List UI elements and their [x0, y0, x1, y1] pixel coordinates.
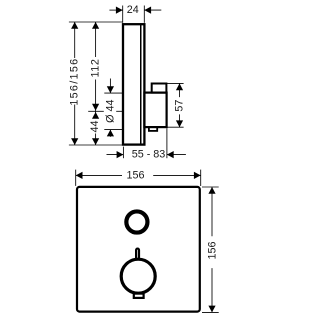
dimension 55-83 tails [107, 154, 124, 156]
dimension 112 line [95, 22, 97, 57]
arrows Ø44 (outside, pointing inward) [107, 86, 114, 93]
front width dim 156 line [76, 174, 122, 176]
handle centerline [88, 110, 104, 112]
svg-text:44: 44 [89, 120, 101, 132]
dimension 24: extension lines [122, 6, 124, 23]
handle bottom tab [134, 294, 144, 298]
arrows 57 [176, 83, 183, 90]
wall plate (side profile) [123, 24, 144, 144]
knob top step [152, 84, 167, 93]
front width dim 156: extension lines [75, 170, 77, 186]
svg-text:24: 24 [127, 4, 139, 16]
arrows 112 [92, 22, 99, 29]
select button ring [126, 211, 147, 232]
svg-text:156: 156 [126, 169, 144, 181]
svg-text:55 - 83: 55 - 83 [132, 149, 166, 161]
arrows 55-83 (outside, pointing inward) [117, 151, 124, 158]
arrows 44 [92, 112, 99, 119]
front height dim 156: extension lines [202, 186, 219, 188]
dimension Ø44 ticks [104, 92, 122, 94]
plate inner front line [140, 23, 142, 145]
dimension 57 line [179, 83, 181, 97]
svg-text:156: 156 [206, 241, 218, 259]
knob main body [144, 93, 166, 128]
knob bottom tab [149, 127, 157, 131]
arrows front height 156 [208, 187, 215, 194]
arrows 24 (outside, pointing inward) [116, 7, 123, 14]
arrows 156/156 [71, 22, 78, 29]
left extension lines (156/156) [69, 21, 123, 23]
arrows front width 156 [76, 172, 83, 179]
dimension 156/156 line [74, 22, 76, 58]
dimension 44 line [95, 111, 97, 118]
svg-text:112: 112 [90, 58, 102, 77]
svg-text:Ø 44: Ø 44 [105, 99, 117, 122]
dimension Ø44 arrow tails [109, 79, 111, 94]
front plate [77, 187, 200, 312]
dimension 24: tails [109, 9, 122, 11]
thermostat handle circle [121, 259, 155, 293]
front height dim 156 line [211, 187, 213, 236]
dimension 55-83 extension lines [122, 147, 124, 159]
dimension 57 extension lines [167, 82, 184, 84]
svg-text:156/156: 156/156 [69, 58, 81, 106]
svg-text:57: 57 [174, 100, 186, 112]
handle top tab [136, 249, 139, 261]
